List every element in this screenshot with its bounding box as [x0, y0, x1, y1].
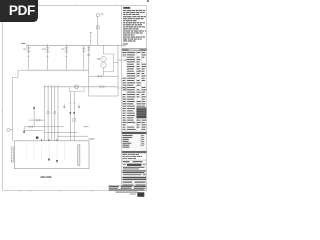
border zone tick left — [1, 110, 3, 112]
title block address row — [122, 170, 146, 171]
instrument bubble on pipe B5 — [88, 54, 90, 56]
distribution pipe D2 — [47, 87, 49, 141]
manifold ticks — [44, 85, 46, 87]
dip pipe arrowhead 2 — [56, 160, 58, 162]
control valve drop pipe — [103, 68, 105, 76]
inline component on riser — [96, 26, 99, 29]
footer block text row 1 — [109, 186, 119, 187]
table dark annotation block — [137, 107, 147, 118]
flow arrow on D7 — [73, 112, 75, 114]
legend divider — [139, 134, 141, 148]
border zone tick bottom 2 — [60, 191, 62, 193]
H5b left drop — [23, 127, 25, 132]
title block row 7 text — [123, 182, 133, 183]
main vertical pipe B5 — [88, 45, 90, 96]
footer block frame — [108, 185, 146, 191]
instrument I1 top circle — [96, 14, 99, 17]
legend header bar — [122, 132, 147, 134]
equipment table column lines — [126, 51, 128, 131]
distribution pipe D5 — [57, 87, 59, 141]
equipment table header bar — [122, 48, 147, 51]
corner clipped mark top right — [147, 0, 149, 2]
notes heading — [123, 7, 130, 9]
dip pipe arrowhead 1 — [48, 159, 50, 161]
valve VH on pipe B5 — [88, 47, 90, 50]
valve VA on branch B1 — [27, 48, 30, 52]
pump P1 internals — [75, 86, 77, 88]
title block frame — [122, 159, 147, 161]
right stub S2 — [118, 87, 125, 89]
header H1 right end tick — [124, 44, 126, 46]
vent stub V1 — [90, 33, 92, 46]
station stub to right pipe — [114, 62, 119, 64]
station outlet pipe — [89, 75, 118, 77]
border zone tick bottom 1 — [29, 191, 31, 193]
header H1 left break tick — [26, 44, 28, 47]
distribution pipe D3 — [51, 87, 53, 141]
side mark right of D7 — [78, 104, 80, 108]
control valve station riser — [103, 45, 105, 54]
instrument I1 label — [100, 14, 103, 15]
border zone tick top 2 — [114, 4, 116, 6]
page background — [0, 0, 149, 198]
notes text lines — [123, 10, 126, 11]
border zone tick bottom 3 — [91, 191, 93, 193]
footer block text row 3 — [109, 189, 145, 190]
pipe riser to instrument I1 — [97, 17, 99, 45]
jog pipe J2 — [44, 132, 78, 134]
valve VG on H5 — [36, 119, 40, 122]
drawing border frame — [3, 6, 147, 191]
footer text under border — [116, 192, 138, 193]
title block row 8 text — [123, 185, 134, 186]
tee tick on D7 — [73, 102, 76, 104]
PDF badge — [0, 0, 38, 22]
valve actuator box on D7 — [73, 119, 76, 122]
right side vertical pipe — [117, 45, 119, 96]
valve handwheel block — [36, 137, 38, 139]
tee tick on D6 — [69, 102, 72, 104]
control valve station bypass — [104, 54, 114, 72]
header H1 left label — [21, 43, 25, 44]
equipment table rows — [122, 53, 147, 55]
control valve CV1 lower — [101, 62, 106, 67]
distribution pipe D4 — [54, 87, 56, 141]
flow arrow on D6 — [69, 112, 71, 114]
title block row 1 text — [123, 161, 130, 162]
main header pipe H1 — [27, 44, 125, 46]
valve VC label — [61, 49, 65, 50]
valve VF on discharge — [100, 85, 104, 88]
tank internal dip pipes — [26, 141, 28, 161]
tank T1 shell — [15, 141, 89, 169]
pump discharge line H3 — [44, 86, 118, 88]
drain arrow pipe — [33, 108, 35, 127]
collector pipe H2 — [29, 69, 89, 71]
revision rows — [122, 154, 127, 155]
pump P1 recirculation loop — [69, 87, 84, 92]
tank outlet label — [89, 138, 95, 139]
valve VA joint tick — [27, 56, 29, 58]
footer stamp box — [137, 192, 144, 197]
border zone tick top 1 — [74, 4, 76, 6]
right stub S1 — [118, 59, 125, 61]
valve VB on branch B2 — [46, 48, 49, 52]
valve VB joint tick — [46, 56, 48, 58]
legend rows — [122, 135, 132, 136]
return pipe D7 — [73, 92, 75, 141]
distribution pipe D1 — [44, 87, 46, 141]
tank nozzles — [41, 139, 43, 141]
drain pipe top arrowhead — [33, 107, 35, 109]
side branch H5 — [29, 119, 44, 121]
right stub S2 flag — [125, 87, 128, 89]
control valve CV1 upper — [101, 57, 106, 62]
tank level gauge — [78, 145, 80, 166]
instrument stub left — [10, 129, 13, 131]
tank label — [41, 176, 46, 178]
title block row 3 text — [123, 167, 145, 168]
table empty cell patch — [122, 57, 126, 77]
H5b drop arrowhead — [23, 131, 25, 133]
lower cross pipe H4 — [89, 95, 118, 97]
title block drawing title — [122, 177, 146, 178]
branch pipe B3 — [66, 45, 68, 70]
pump P1 — [75, 85, 79, 89]
notes panel left boundary — [121, 6, 123, 191]
side mark left of D6 — [63, 104, 65, 108]
valve VB label — [42, 49, 46, 50]
branch B2 header tick — [47, 44, 49, 46]
footer block text row 2 — [109, 188, 118, 189]
instrument bubble on D2 — [47, 111, 49, 113]
label near tank inlet — [84, 126, 89, 127]
valve VC on branch B3 — [65, 48, 68, 52]
valve VC joint tick — [65, 56, 67, 58]
branch pipe B4 — [83, 45, 85, 70]
right stub S1 flag — [125, 59, 128, 61]
title block row 5 text — [123, 174, 142, 175]
branch pipe B2 — [47, 45, 49, 70]
border zone tick bottom 0 — [20, 191, 22, 192]
cross header H5b — [24, 126, 64, 128]
title block company logo — [127, 164, 142, 166]
valve VI on H5b — [29, 126, 33, 129]
vent stub V1 top tick — [90, 32, 93, 34]
instrument bubble on D4 — [54, 111, 56, 113]
valve VD on branch B4 — [82, 48, 85, 52]
branch B3 header tick — [66, 44, 68, 46]
valve VA label — [23, 49, 27, 50]
jog pipe J3 — [57, 135, 88, 137]
branch pipe B1 — [28, 45, 30, 70]
jog pipe J1 — [24, 130, 43, 132]
return pipe D6 — [69, 92, 71, 141]
tank side ladder — [11, 147, 13, 162]
valve VE on outlet — [98, 75, 102, 78]
revision bar — [122, 151, 147, 153]
left step-down pipe — [13, 70, 29, 141]
instrument bubble left — [7, 128, 10, 131]
control valve station label — [97, 58, 100, 59]
